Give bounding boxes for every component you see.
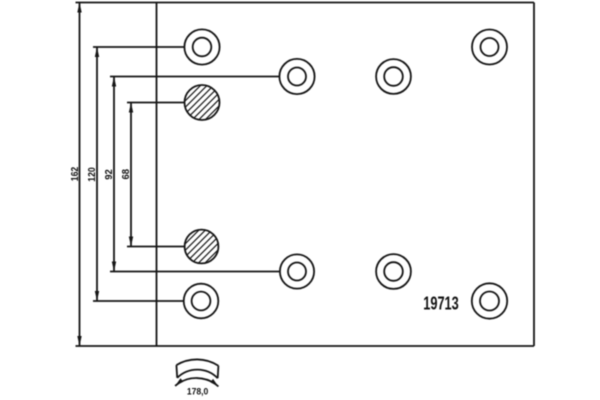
hole bottom-mid-right inner	[384, 262, 403, 281]
radius symbol band inner arc	[177, 370, 218, 379]
svg-text:68: 68	[121, 169, 132, 180]
dimension line 68	[130, 103, 132, 247]
arrow 68 bottom	[129, 237, 133, 247]
hole bottom-mid-right outer	[376, 254, 411, 289]
hole bottom-right inner	[480, 292, 499, 311]
hole bottom-mid-left outer	[280, 254, 314, 288]
arrow 120 bottom	[95, 291, 99, 301]
arrow 92 top	[112, 77, 116, 87]
arrow 162 bottom	[77, 336, 81, 346]
svg-text:19713: 19713	[423, 293, 459, 314]
radius symbol band left side	[175, 365, 178, 378]
hole top-left outer	[184, 29, 219, 64]
dimension line 92	[113, 77, 115, 272]
extension line 120 top	[93, 46, 184, 48]
plate top edge	[76, 2, 535, 4]
extension line 68 bottom	[127, 246, 184, 248]
extension line 92 top	[110, 76, 280, 78]
extension line 120 bottom	[93, 300, 184, 302]
extension line 92 bottom	[110, 271, 280, 273]
hole top-mid-right inner	[384, 67, 403, 86]
svg-text:120: 120	[87, 167, 98, 182]
plate bottom edge	[76, 345, 535, 347]
hole bottom-right outer	[472, 283, 507, 318]
dimension line 162	[79, 3, 81, 347]
dimension line 120	[96, 47, 98, 301]
countersunk hole bottom (hatched)	[185, 230, 219, 264]
arrow 68 top	[129, 103, 133, 113]
arrow 120 top	[95, 47, 99, 57]
extension line 68 top	[127, 102, 185, 104]
svg-text:162: 162	[70, 166, 81, 181]
hole top-mid-left inner	[288, 68, 306, 86]
radius dimension arc	[175, 378, 218, 386]
countersunk hole top (hatched)	[185, 85, 220, 120]
radius arc left arrow	[175, 378, 183, 386]
hole top-mid-left outer	[279, 59, 314, 94]
arrow 162 top	[77, 3, 81, 13]
radius symbol band outer arc	[176, 359, 218, 365]
hole bottom-left inner	[192, 292, 211, 311]
hole bottom-mid-left inner	[288, 263, 306, 281]
radius symbol band right side	[217, 366, 220, 379]
hole bottom-left outer	[184, 284, 219, 319]
hole top-right outer	[472, 30, 507, 65]
svg-text:92: 92	[104, 169, 115, 180]
plate right edge	[533, 3, 535, 347]
arrow 92 bottom	[112, 262, 116, 272]
hole top-mid-right outer	[376, 59, 411, 94]
hole top-right inner	[481, 38, 499, 56]
plate left edge	[156, 3, 158, 347]
radius arc right arrow	[210, 379, 218, 387]
hole top-left inner	[193, 38, 212, 57]
svg-text:178,0: 178,0	[187, 387, 209, 397]
